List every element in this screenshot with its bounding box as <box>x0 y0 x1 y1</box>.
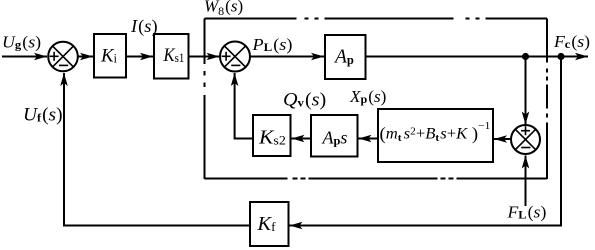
block Ki <box>94 34 126 78</box>
wire: S1 to Ki <box>78 56 93 58</box>
wire: Ks2 left and up to S2 <box>235 73 253 139</box>
block M: (mt s^2 + Bt s + K)^-1 <box>378 109 493 162</box>
block Ks1 <box>154 34 189 79</box>
svg-text:Ug(s): Ug(s) <box>2 32 41 52</box>
wire: input Ug to summing junction S1 <box>2 56 47 58</box>
svg-text:(mts2+Bts+K)−1: (mts2+Bts+K)−1 <box>380 120 491 144</box>
summing junction S2 <box>220 42 250 72</box>
label FL(s) <box>506 203 546 222</box>
svg-text:Uf(s): Uf(s) <box>23 105 63 126</box>
label W8(s) <box>204 0 243 18</box>
wire: Kf left and up to S1 <box>64 73 250 226</box>
svg-text:Aps: Aps <box>321 128 347 148</box>
wire: Aps to Ks2 <box>292 138 312 140</box>
label Ug(s) <box>2 32 41 52</box>
wire: M to Aps <box>359 138 379 140</box>
dashed box W8(s) bottom edge <box>205 178 548 180</box>
svg-text:PL(s): PL(s) <box>251 35 292 55</box>
summing junction S1 <box>48 42 78 72</box>
block Ap <box>325 35 366 79</box>
block Ks2 <box>253 115 291 156</box>
wire: S2 to Ap <box>250 56 324 58</box>
svg-text:W8(s): W8(s) <box>204 0 243 18</box>
svg-text:Ap: Ap <box>333 47 354 68</box>
svg-text:Ks2: Ks2 <box>258 125 286 148</box>
wire: S3 to block M <box>494 138 511 140</box>
summing junction S3 <box>511 125 540 154</box>
svg-text:Kf: Kf <box>256 213 276 235</box>
node: junction dot 2 <box>557 53 564 60</box>
block Kf <box>250 202 289 246</box>
svg-text:Ki: Ki <box>100 45 118 66</box>
svg-text:Xp(s): Xp(s) <box>349 87 386 106</box>
dashed box W8(s) right edge <box>546 19 548 180</box>
dashed box W8(s) left edge <box>204 19 206 180</box>
label PL(s) <box>251 35 292 55</box>
block Aps <box>311 115 358 157</box>
wire: dot2 down and left to Kf <box>290 57 562 226</box>
svg-text:Qv(s): Qv(s) <box>283 90 326 110</box>
svg-text:Ks1: Ks1 <box>163 44 185 65</box>
wire: Ks1 to summing junction S2 <box>189 56 220 58</box>
label I(s) <box>130 16 158 36</box>
node: junction dot 1 <box>522 53 529 60</box>
label Uf(s) <box>23 105 63 126</box>
wire: FL input stub to S3 <box>525 156 527 207</box>
wire: Ap to output Fc <box>366 56 589 58</box>
label Qv(s) <box>283 90 326 110</box>
wire: dot1 down to S3 <box>525 57 527 125</box>
label Fc(s) <box>553 32 590 51</box>
dashed box W8(s) top edge <box>205 18 548 20</box>
svg-text:FL(s): FL(s) <box>506 203 546 222</box>
label Xp(s) <box>349 87 386 106</box>
svg-text:Fc(s): Fc(s) <box>553 32 590 51</box>
wire: Ki to Ks1 <box>126 56 153 58</box>
